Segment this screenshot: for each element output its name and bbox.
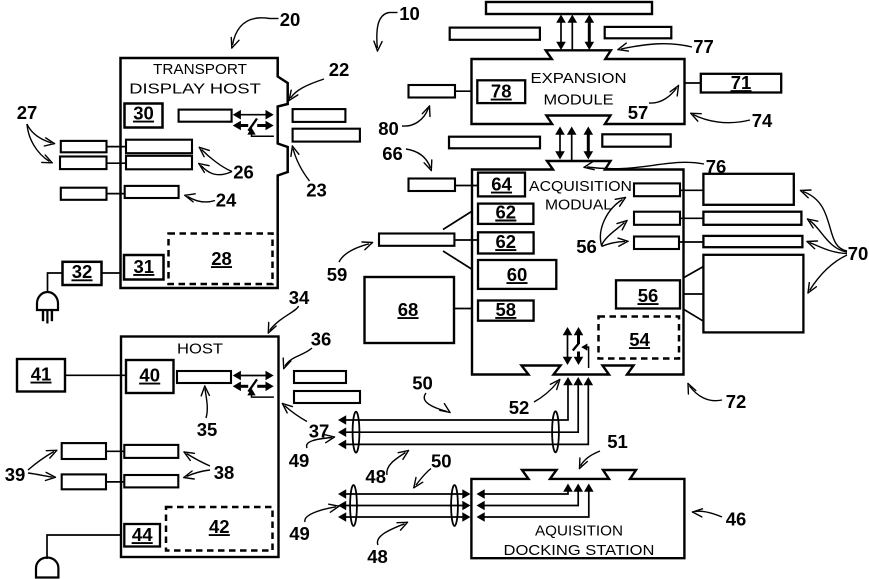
svg-text:42: 42 xyxy=(209,516,230,537)
svg-text:48: 48 xyxy=(365,466,386,487)
svg-text:44: 44 xyxy=(132,524,153,545)
block 80 rectangle xyxy=(409,85,472,98)
wire 41 to host xyxy=(65,374,126,376)
wire i2 to ext2 xyxy=(680,217,703,219)
block 42 (dashed) xyxy=(166,507,273,551)
block 35 bar xyxy=(177,371,231,383)
wire 59 bar to 62 upper (diagonal) xyxy=(443,212,472,230)
label 23 xyxy=(291,146,327,201)
svg-text:32: 32 xyxy=(72,261,93,282)
label 37 xyxy=(282,404,329,442)
block 54 (dashed) xyxy=(599,317,680,359)
label 38 with arrows xyxy=(184,452,234,483)
display adapter bar (next to 30) xyxy=(179,110,232,122)
svg-text:62: 62 xyxy=(496,201,517,222)
block 24 rectangle xyxy=(125,186,179,198)
label 80 xyxy=(378,106,430,139)
svg-text:49: 49 xyxy=(289,450,310,471)
external bar 22b right of transport host xyxy=(293,129,360,142)
acquisition docking station box xyxy=(471,470,684,558)
block 31 xyxy=(124,255,164,280)
top right module bar xyxy=(605,27,672,38)
interface rectangle i2 xyxy=(634,212,680,225)
svg-text:30: 30 xyxy=(133,103,154,124)
expansion module title xyxy=(531,70,627,109)
block 32 xyxy=(63,261,102,285)
svg-text:TRANSPORT: TRANSPORT xyxy=(153,61,247,78)
block 30 xyxy=(125,103,163,128)
acquisition module U72 box xyxy=(472,161,684,375)
external bar 36a right of host xyxy=(294,371,346,383)
svg-text:60: 60 xyxy=(507,264,528,285)
external block 39b xyxy=(62,474,125,489)
external device bar ext3 xyxy=(703,236,802,247)
acquisition module title xyxy=(529,178,632,214)
svg-text:77: 77 xyxy=(693,36,714,57)
label 27 with arrows xyxy=(17,102,55,163)
label 74 xyxy=(691,110,773,131)
label 50 upper xyxy=(412,373,450,413)
middle right module bar xyxy=(602,134,670,146)
svg-text:DOCKING STATION: DOCKING STATION xyxy=(504,542,655,559)
external bar 36b right of host xyxy=(294,391,360,403)
block pair 38 lower xyxy=(124,475,178,487)
label 35 xyxy=(197,386,218,440)
svg-text:10: 10 xyxy=(399,3,420,24)
label 39 with arrows xyxy=(5,450,57,485)
svg-text:51: 51 xyxy=(607,431,628,452)
wire i1 to ext1 xyxy=(680,189,703,191)
transport display host box 20 xyxy=(121,58,288,288)
svg-text:56: 56 xyxy=(576,236,597,257)
handshake bus symbol in host xyxy=(233,371,274,397)
label 51 xyxy=(580,431,628,469)
svg-text:48: 48 xyxy=(367,546,388,567)
block 41 xyxy=(17,359,65,392)
svg-text:78: 78 xyxy=(491,81,512,102)
wire host to transducer xyxy=(47,535,121,559)
block 78 xyxy=(477,80,525,103)
label 52 xyxy=(509,380,560,419)
svg-text:52: 52 xyxy=(509,397,530,418)
host title xyxy=(177,341,223,358)
block 40 xyxy=(126,360,174,393)
external block 39a xyxy=(62,443,125,459)
svg-text:40: 40 xyxy=(139,365,160,386)
svg-text:54: 54 xyxy=(629,329,650,350)
svg-text:23: 23 xyxy=(306,180,327,201)
block pair 26 upper xyxy=(126,140,192,154)
block 59 bar xyxy=(379,234,454,246)
label 70 with arrows xyxy=(801,190,869,293)
docking station title xyxy=(504,523,655,560)
label 76 xyxy=(584,156,726,177)
block 71 xyxy=(701,72,781,93)
label 72 xyxy=(688,384,746,413)
top bus bar xyxy=(486,2,652,14)
transport display host title xyxy=(129,61,261,98)
svg-text:ACQUISITION: ACQUISITION xyxy=(529,178,632,195)
label 34 xyxy=(268,287,310,333)
bus arrows: top bar to expansion module xyxy=(556,15,594,51)
svg-text:HOST: HOST xyxy=(177,341,223,358)
svg-text:46: 46 xyxy=(726,509,747,530)
svg-text:38: 38 xyxy=(214,462,235,483)
cable ring lower left xyxy=(350,485,357,526)
wire 32 to transport display host xyxy=(102,272,121,274)
svg-text:58: 58 xyxy=(496,299,517,320)
interface rectangle i1 xyxy=(634,183,680,196)
label 57 xyxy=(628,86,679,124)
svg-text:31: 31 xyxy=(134,256,155,277)
external device box ext1 xyxy=(703,174,793,205)
top left module bar xyxy=(450,28,540,40)
label 48 upper xyxy=(365,451,408,488)
block 56 (boxed) xyxy=(616,280,680,308)
svg-text:49: 49 xyxy=(289,523,310,544)
wire 59 bar to 62 lower xyxy=(454,239,478,241)
svg-text:24: 24 xyxy=(216,190,237,211)
label 24 xyxy=(185,190,237,211)
svg-text:71: 71 xyxy=(731,72,752,93)
svg-text:62: 62 xyxy=(496,231,517,252)
block pair 26 lower xyxy=(126,156,192,170)
svg-text:EXPANSION: EXPANSION xyxy=(531,70,627,87)
svg-text:MODULE: MODULE xyxy=(544,92,614,109)
svg-text:41: 41 xyxy=(31,364,52,385)
external device bar ext2 xyxy=(703,212,801,225)
bus arrows: expansion to acquisition xyxy=(555,127,593,162)
block 58 xyxy=(478,299,534,321)
transducer dome symbol xyxy=(36,558,58,578)
label 49 lower xyxy=(289,504,339,544)
svg-text:22: 22 xyxy=(329,59,350,80)
block 60 xyxy=(478,260,556,289)
block 68 xyxy=(365,277,455,343)
handshake bus symbol at acquisition bottom xyxy=(563,327,589,368)
cable 50a lines from acquisition to host side xyxy=(338,377,593,449)
middle left module bar xyxy=(449,137,540,149)
cable ring upper right xyxy=(552,411,559,452)
interface rectangle i3 xyxy=(634,237,679,250)
svg-text:50: 50 xyxy=(431,451,452,472)
host box 34 xyxy=(121,337,279,558)
cable ring upper left xyxy=(353,412,360,453)
external bar 22a right of transport host xyxy=(293,109,346,122)
svg-text:28: 28 xyxy=(211,248,232,269)
svg-text:20: 20 xyxy=(280,9,301,30)
svg-text:56: 56 xyxy=(638,285,659,306)
external block 24 pair xyxy=(61,188,125,200)
expansion module U57 box xyxy=(472,50,685,124)
svg-text:50: 50 xyxy=(412,373,433,394)
fan wires 56 to ext4 xyxy=(684,267,703,322)
svg-text:80: 80 xyxy=(378,118,399,139)
svg-text:AQUISITION: AQUISITION xyxy=(535,523,623,540)
label 48 lower xyxy=(367,522,407,567)
power plug symbol xyxy=(37,273,63,324)
svg-text:39: 39 xyxy=(5,464,26,485)
svg-text:59: 59 xyxy=(327,264,348,285)
label 10 xyxy=(374,3,420,51)
block 62 upper xyxy=(478,201,533,224)
label 46 xyxy=(693,509,747,530)
label 20 xyxy=(231,9,300,48)
label 56 with arrows xyxy=(576,198,628,258)
block 62 lower xyxy=(478,231,534,254)
label 22 xyxy=(289,59,349,101)
svg-text:72: 72 xyxy=(726,391,747,412)
cable 50b lines into docking station xyxy=(338,489,471,522)
label 26 with arrows xyxy=(199,147,254,182)
wire expansion to 71 xyxy=(685,82,701,84)
svg-text:DISPLAY HOST: DISPLAY HOST xyxy=(129,81,261,98)
svg-text:37: 37 xyxy=(309,421,330,442)
label 77 xyxy=(618,36,714,57)
svg-text:66: 66 xyxy=(382,143,403,164)
label 59 xyxy=(327,242,373,285)
external block 27b xyxy=(60,157,126,170)
svg-text:57: 57 xyxy=(628,102,649,123)
svg-text:36: 36 xyxy=(311,329,332,350)
block 44 xyxy=(124,524,160,547)
svg-text:64: 64 xyxy=(491,174,512,195)
wire 68 to acquisition module xyxy=(454,308,472,310)
cable ring lower right xyxy=(451,485,458,526)
label 36 xyxy=(283,329,331,369)
wire i3 to ext3 xyxy=(679,241,703,243)
label 66 xyxy=(382,143,432,171)
external block 27a xyxy=(61,141,126,152)
svg-text:74: 74 xyxy=(752,110,773,131)
label 49 upper xyxy=(289,435,335,471)
svg-text:26: 26 xyxy=(233,162,254,183)
svg-text:34: 34 xyxy=(289,287,310,308)
block 66 rectangle xyxy=(409,179,479,192)
handshake bus symbol in transport display host xyxy=(233,110,274,136)
block 64 xyxy=(478,173,525,197)
external device box ext4 xyxy=(703,255,803,333)
label 50 lower xyxy=(414,451,452,488)
wire 59 bar to 60 (diagonal) xyxy=(443,251,472,269)
block pair 38 upper xyxy=(124,445,178,458)
svg-text:70: 70 xyxy=(848,243,869,264)
svg-text:35: 35 xyxy=(197,419,218,440)
svg-text:68: 68 xyxy=(398,299,419,320)
docking station internal cable arrows xyxy=(477,484,594,522)
svg-text:MODUAL: MODUAL xyxy=(545,197,612,214)
block 28 (dashed) xyxy=(169,234,273,285)
svg-text:27: 27 xyxy=(17,102,38,123)
